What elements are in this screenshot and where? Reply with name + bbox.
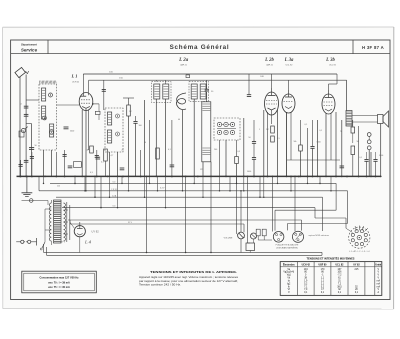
header band divider [11,53,390,55]
svg-text:Vg1: Vg1 [287,275,292,277]
svg-text:Électrodes: Électrodes [283,263,295,266]
wire IF1 down [155,99,157,176]
socket diagram outline [349,227,370,248]
PU terminal 1 [256,229,260,236]
svg-text:Service: Service [21,48,38,53]
jack J3 [367,146,371,150]
node IF1 bus [155,176,157,178]
wire stub 101 [100,176,102,207]
wire stub 230 [229,176,231,190]
wire rail A drop [248,74,250,95]
wire HT rail A [83,73,337,75]
socket diagram center [357,235,361,239]
header dept box [47,40,49,54]
wire v 1719 [171,120,173,176]
svg-text:0,5: 0,5 [277,138,280,140]
wire bottom run 2 [47,254,323,256]
trimmer T3 [50,130,54,134]
wire V1 grid left [57,104,80,106]
wire R9 [352,155,354,177]
svg-text:TENSIONS ET INTENSITES DE L AP: TENSIONS ET INTENSITES DE L APPAREIL [150,270,238,274]
svg-text:L 1: L 1 [70,74,77,79]
osc coil L3 ticks [202,103,210,105]
svg-text:PLAQUETTE A GAUCHE: PLAQUETTE A GAUCHE [276,244,299,247]
svg-text:L 3b: L 3b [325,58,335,63]
svg-text:5000: 5000 [379,155,383,157]
table frame [280,262,382,296]
socket diagram leads [346,228,353,232]
coil winding 2 [42,106,46,119]
wire v 1407 [140,150,142,176]
coil box L1 dashed [39,84,57,150]
wire v 2437 [243,118,245,176]
wire gang down [225,140,227,176]
capacitor Ca3 [29,147,34,149]
resistor R8 [351,127,355,133]
svg-text:UCH 42: UCH 42 [72,81,80,83]
coil winding 3 [50,124,54,137]
wire v 646 [64,150,66,176]
svg-text:0,1: 0,1 [101,162,104,164]
svg-text:40: 40 [178,119,180,121]
wire mid drop 185 [185,176,187,252]
svg-text:0,1: 0,1 [319,130,322,132]
wire AVC 1 [56,196,323,198]
node V3 bus [286,176,288,178]
speaker [378,115,384,124]
coil winding 1 [42,88,46,101]
wire coilbox down 2 [51,150,53,176]
svg-text:L 2a: L 2a [178,58,189,63]
svg-text:mA: mA [377,282,381,285]
resistor R3 [104,149,108,161]
svg-text:UCL 82: UCL 82 [336,264,345,266]
trimmer T1 [49,93,53,97]
transformer secondary [64,203,66,241]
svg-text:38,5: 38,5 [337,286,342,288]
wire L3 down [210,162,212,177]
switch box [246,243,255,251]
osc coil box dashed [105,108,123,152]
connector circle [29,199,33,203]
wire AVC 2 [62,207,315,209]
wire socket feed 2 [294,176,296,231]
wire tr leads left [45,208,51,210]
svg-text:50k: 50k [293,141,296,143]
capacitor C2 [133,121,137,123]
node V4 bus [325,176,327,178]
svg-text:0,1: 0,1 [168,149,171,151]
wire v 3418 [341,120,343,176]
gang trimmer 1 [217,122,221,126]
osc winding 1 [108,112,112,125]
capacitor C bus2 [120,167,125,169]
wire V1 anode top [82,74,84,93]
tube V1 cathode [82,107,90,109]
wire comb below bus [43,176,45,183]
paper scan edge [3,26,394,28]
wire heater 1 [50,182,336,184]
tube V4 anode [328,90,330,98]
wire tone run [70,223,244,225]
output transformer core [346,111,352,127]
svg-text:UAF 41: UAF 41 [266,64,274,67]
osc coil L3 box [202,102,211,162]
capacitor C6 [373,159,377,161]
svg-text:125: 125 [200,169,203,171]
node curve bus [182,176,184,178]
jack J1 [367,133,371,137]
svg-text:100: 100 [139,125,142,127]
bus junction dots [20,175,22,177]
wire R8 [352,120,354,127]
wire V4 top [328,84,330,90]
node V1 bus [81,176,83,178]
wire v 3075 [307,128,309,176]
comb dots [43,183,45,185]
osc winding 2 [108,130,112,143]
svg-text:repères NOIR extérieurs: repères NOIR extérieurs [309,234,330,237]
wire y160 link [287,159,340,161]
tube V1 grid [81,99,91,101]
wire R2 [128,98,130,105]
capacitor Ca4 [24,159,29,161]
IF2 secondary [200,84,206,99]
svg-text:Vg2(g3+4): Vg2(g3+4) [283,272,294,274]
gang wires [217,128,236,130]
transformer secondary taps [64,209,69,211]
wire V4 pins [325,114,327,177]
wire V1 anode right [93,103,99,105]
wire R3b [149,120,151,176]
wire C2 [135,116,137,122]
svg-text:50: 50 [357,141,359,143]
capacitor C5 [364,159,368,161]
node antenna bus [19,176,21,178]
svg-text:Consommation max 127 V50 Hz: Consommation max 127 V50 Hz [39,276,79,280]
svg-text:(VUE AVANT ARRIÈRE): (VUE AVANT ARRIÈRE) [276,246,298,249]
svg-text:6,3: 6,3 [90,172,93,174]
svg-text:Unité: Unité [375,263,381,266]
capacitor C bus1 [68,165,73,167]
wire stub 85 [84,176,86,190]
svg-text:L 4: L 4 [84,239,92,244]
node V1 anode right [92,103,94,105]
wire stub 260 [259,176,261,197]
tuning gang box dashed [214,118,240,140]
wire V5 [70,222,74,228]
wire antenna down 1 [19,77,21,176]
wire V1 pins down [81,110,83,176]
svg-text:5000: 5000 [70,131,74,133]
ground bus [17,175,382,177]
wire v 1445 [144,100,146,176]
wire v 371 [370,152,372,176]
antenna [15,67,26,77]
svg-text:50: 50 [144,142,146,144]
osc coupling curve [177,93,186,109]
svg-text:Département: Département [21,43,37,47]
wire R7 [300,120,302,145]
node V2 bus [263,176,265,178]
tube V5 UY92 [74,226,85,237]
tube V3 grid [284,101,294,103]
wire OT to speaker [352,115,378,117]
wire connector line [22,200,49,202]
svg-text:200: 200 [214,149,217,151]
resistor R2 [127,105,131,116]
wire mid drop 211 [210,176,212,252]
wire IF1 top [155,80,157,81]
wire bottom run 1 [44,251,323,253]
capacitor Ca1 [24,105,29,107]
wire V3 top [288,80,290,90]
svg-text:UCL 82: UCL 82 [286,65,294,67]
resistor R7 [299,145,303,151]
tube V1 anode [82,93,84,97]
svg-text:25: 25 [122,150,124,152]
node IF2 bus [193,176,195,178]
wire coilbox down 1 [43,150,45,176]
wire jack [368,136,370,140]
svg-text:L 2b: L 2b [264,58,274,63]
tube V1 UCH42 [79,93,93,111]
mains cord [21,240,24,243]
node coil bus [44,176,46,178]
svg-text:UY 92: UY 92 [353,264,360,266]
node R2 bus [128,176,130,178]
wire IF2 down [193,99,195,176]
svg-text:env. 75 : I = 30 mA: env. 75 : I = 30 mA [48,286,70,289]
osc trimmer 2 [116,132,120,136]
svg-text:6,3 V: 6,3 V [160,188,165,190]
gang trimmer 2 [224,122,228,126]
svg-text:2 X 31: 2 X 31 [111,189,116,191]
IF1 secondary [163,84,169,99]
border frame [11,40,390,300]
node gang bus [225,176,227,178]
svg-text:Appareil réglé sur 110/245 ave: Appareil réglé sur 110/245 avec régl. Vo… [139,276,239,279]
wire v 3586 [358,126,360,176]
svg-text:0,1: 0,1 [305,124,308,126]
tube V4 UL41 [322,94,335,114]
wire PU [257,236,259,240]
wire mid drop 247 [247,176,249,243]
svg-text:Schéma Général: Schéma Général [170,44,230,51]
capacitor C bus4 [340,165,345,167]
svg-text:H 3F 87 A: H 3F 87 A [362,45,384,50]
capacitor C3b [252,157,256,159]
tube V3 cathode [285,107,292,109]
osc trimmer 1 [116,114,120,118]
node L3 bus [210,176,212,178]
resistor R mid1 [90,146,94,153]
svg-text:UY 92: UY 92 [92,230,100,234]
wire AVC 3 [68,219,302,221]
tube V2 UBF80 [265,92,279,115]
svg-text:Tension continue 242 / 50 Hz.: Tension continue 242 / 50 Hz. [139,284,181,287]
power transformer core [54,200,62,243]
svg-text:UBF 80: UBF 80 [319,264,328,266]
table columns [296,262,298,296]
tube V2 anode [271,88,273,96]
switch S1 [42,242,45,248]
wire V2 pins [263,110,265,176]
svg-text:70: 70 [340,131,342,133]
tube V2 grid [266,100,277,102]
coil box label strip [39,81,41,84]
svg-text:5000: 5000 [247,171,251,173]
svg-text:mA: mA [377,285,381,288]
wire speaker return [380,124,382,177]
wire C3 [253,120,255,142]
wire oscbox down [109,152,111,176]
capacitor C3 [252,141,256,143]
svg-text:50: 50 [248,137,250,139]
wire v 968 [96,150,98,176]
socket HP [292,231,303,242]
capacitor C mid2 [96,156,101,158]
wire OT top [347,110,349,112]
wire heater 2 [39,190,348,192]
capacitor C mid1 [64,126,69,128]
resistor R1h [95,111,100,114]
tube V4 grid [324,101,334,103]
capacitor C8 [63,154,67,156]
wire R3 [105,149,107,152]
wire volume [243,224,245,232]
tube V2 cathode [268,108,276,110]
capacitor C bus3 [170,164,175,166]
tube V4 cathode [325,109,332,111]
wire v 319 [31,152,33,176]
svg-text:1,4 A: 1,4 A [112,194,117,197]
socket diagram pins [364,239,367,242]
ground [26,176,28,192]
wire coil to ant [26,99,39,101]
wire v 563 [55,152,57,176]
switch box left [19,131,24,137]
svg-text:1: 1 [259,129,260,131]
svg-text:5000: 5000 [317,142,321,144]
table header rule [280,266,382,268]
wire volume feed [240,191,242,232]
svg-text:2M: 2M [129,111,132,113]
switch pot [251,233,257,239]
wire mid drop 236 [236,176,238,233]
svg-text:115: 115 [57,186,60,188]
node oscbox bus [107,176,109,178]
wire R mid2 [81,164,86,166]
gang trimmer 4 [217,130,221,134]
svg-text:387 V: 387 V [60,242,66,244]
wire conn down [47,201,49,206]
IF1 dashed enclosure [152,82,172,103]
svg-text:2M: 2M [266,129,269,131]
svg-text:L 3a: L 3a [284,58,294,63]
svg-text:UCH 42: UCH 42 [302,263,311,266]
model box [352,40,354,54]
svg-text:50: 50 [35,145,37,147]
svg-text:4: 4 [21,104,22,106]
trimmer T2 [43,116,47,120]
wire antenna down 2 [25,75,27,177]
jack J2 [367,140,371,144]
svg-text:mA: mA [377,279,381,282]
wire R56 [272,142,274,176]
PU terminal 2 [262,229,266,236]
resistor R5 [271,126,275,133]
gang trimmer 6 [230,130,234,134]
svg-text:Vf: Vf [288,289,291,291]
svg-text:1M: 1M [86,150,89,152]
wire stub 95 [94,176,96,197]
wire socket feed 1 [272,176,274,231]
svg-text:UCL 82: UCL 82 [329,65,337,67]
resistor R4 [235,157,239,164]
resistor R9 [351,146,355,155]
wire left drops [38,176,40,190]
wire v 206 [20,160,22,176]
transformer primary [49,203,51,241]
switch Sa [21,129,25,133]
tube V5 anode [79,222,81,229]
tube V3 [282,94,295,113]
consumption box [22,271,97,293]
wire C4 [312,120,314,147]
svg-text:env. 70 : I = 39 mA: env. 70 : I = 39 mA [48,282,70,285]
resistor R3b [156,148,160,159]
wire rail B down [346,80,348,110]
wire link y1236 [26,123,32,125]
wire AVC drop [206,80,208,89]
capacitor C9 [95,155,99,157]
wire V3 pins [286,112,288,176]
volume pot [238,232,245,239]
transformer shield [66,202,68,242]
wire R4 [236,140,238,157]
wire mid drop 146 [146,176,148,252]
svg-text:UAF 41: UAF 41 [180,64,188,67]
capacitor C7 [19,164,23,166]
svg-text:0,5: 0,5 [237,151,240,153]
IF2 dashed enclosure [189,82,209,102]
wire v 3175 [317,120,319,176]
gang trimmer 5 [224,130,228,134]
wire v 316 [31,124,33,177]
resistor R6 [271,136,275,142]
svg-text:0,1: 0,1 [359,157,362,159]
wire V2 top [271,74,273,88]
svg-text:par rapport à la masse; pour u: par rapport à la masse; pour une aliment… [139,280,238,283]
svg-text:VOLUME: VOLUME [224,238,233,240]
wire stub 75 [74,176,76,183]
wire mains to transformer [37,241,43,243]
tube V5 cathode [77,234,83,236]
tube V3 anode [288,90,290,97]
capacitor Ca2 [24,113,29,115]
IF2 primary [191,84,197,99]
resistor R mid2 [74,162,82,168]
IF1 primary [154,84,160,99]
wire HT rail B [89,79,347,81]
svg-text:6,3: 6,3 [113,206,116,208]
capacitor C osc [102,89,106,91]
gang trimmer 3 [230,122,234,126]
wire rail B drop osc [103,80,105,110]
capacitor C4 [310,146,314,148]
svg-text:6,3: 6,3 [113,181,116,183]
